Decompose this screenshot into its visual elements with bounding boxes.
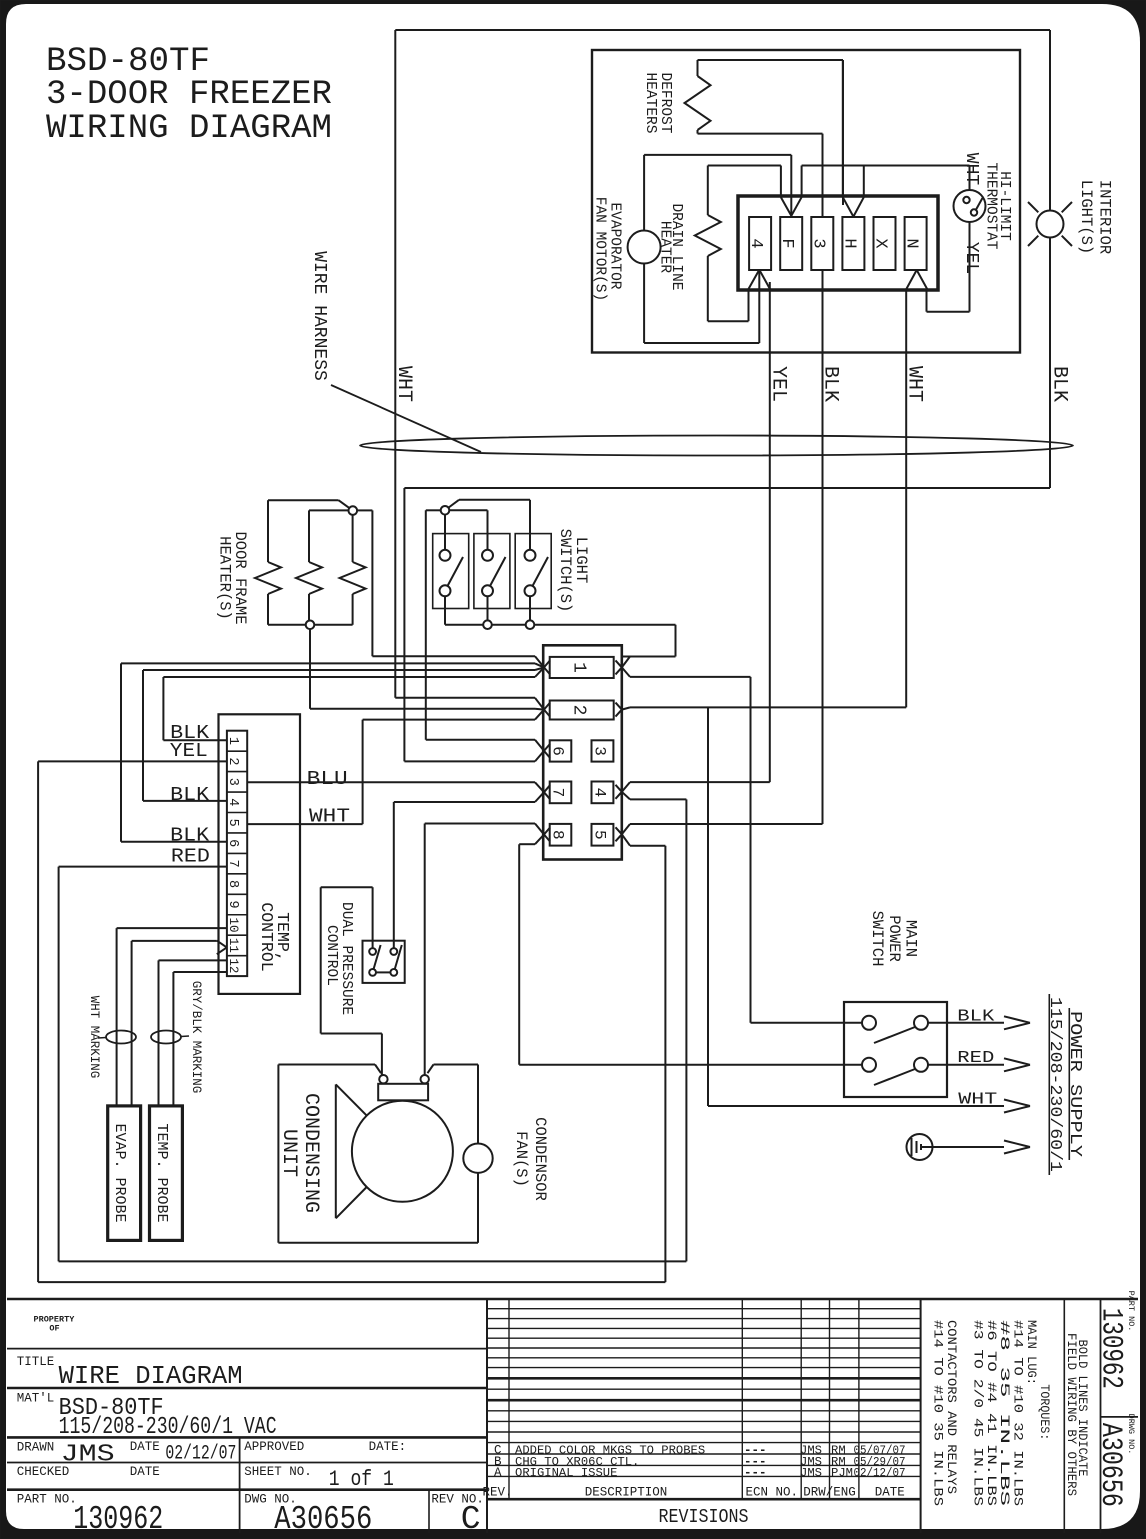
svg-text:5: 5 [591, 830, 609, 840]
svg-text:WIRING DIAGRAM: WIRING DIAGRAM [46, 110, 332, 148]
svg-text:WIRE DIAGRAM: WIRE DIAGRAM [59, 1361, 243, 1391]
svg-text:FAN MOTOR(S): FAN MOTOR(S) [592, 197, 608, 301]
svg-text:115/208-230/60/1 VAC: 115/208-230/60/1 VAC [59, 1414, 277, 1441]
svg-text:F: F [777, 238, 796, 248]
svg-text:WHT: WHT [958, 1090, 997, 1109]
svg-text:WIRE HARNESS: WIRE HARNESS [309, 251, 329, 381]
svg-text:THERMOSTAT: THERMOSTAT [983, 162, 999, 249]
svg-text:C: C [461, 1501, 481, 1538]
svg-text:7: 7 [549, 788, 567, 798]
svg-text:#14 TO #10 35 IN.LBS: #14 TO #10 35 IN.LBS [931, 1320, 946, 1506]
svg-text:APPROVED: APPROVED [244, 1440, 304, 1454]
svg-text:MAIN: MAIN [901, 920, 919, 957]
svg-text:DATE: DATE [875, 1486, 905, 1500]
svg-text:CONDENSING: CONDENSING [299, 1093, 322, 1213]
svg-text:YEL: YEL [767, 366, 790, 402]
svg-text:4: 4 [591, 788, 609, 798]
svg-text:130962: 130962 [1093, 1308, 1127, 1389]
svg-text:FIELD WIRING BY OTHERS: FIELD WIRING BY OTHERS [1064, 1333, 1079, 1496]
svg-text:SWITCH: SWITCH [868, 911, 886, 967]
svg-text:EVAP. PROBE: EVAP. PROBE [111, 1123, 128, 1222]
svg-text:WHT: WHT [961, 153, 981, 186]
svg-text:WHT: WHT [309, 806, 350, 828]
svg-text:4: 4 [746, 238, 765, 248]
svg-text:POWER: POWER [885, 915, 903, 962]
svg-text:BLK: BLK [819, 366, 842, 402]
svg-text:DATE: DATE [130, 1465, 160, 1479]
svg-text:YEL: YEL [170, 740, 208, 762]
svg-text:A30656: A30656 [1093, 1423, 1127, 1507]
svg-text:A: A [494, 1466, 502, 1480]
svg-text:RED: RED [171, 846, 210, 868]
svg-text:8: 8 [225, 880, 240, 888]
svg-text:CONDENSOR: CONDENSOR [531, 1117, 549, 1201]
svg-text:MAT'L: MAT'L [17, 1392, 55, 1406]
svg-text:EVAPORATOR: EVAPORATOR [607, 202, 623, 289]
svg-text:DESCRIPTION: DESCRIPTION [585, 1486, 668, 1500]
svg-text:6: 6 [225, 839, 240, 847]
svg-text:SHEET NO.: SHEET NO. [244, 1465, 312, 1479]
svg-text:TORQUES:: TORQUES: [1037, 1384, 1052, 1440]
svg-text:ECN NO.: ECN NO. [745, 1486, 798, 1500]
svg-text:3: 3 [808, 238, 827, 248]
svg-text:DATE:: DATE: [369, 1440, 407, 1454]
svg-text:4: 4 [225, 798, 240, 806]
svg-text:YEL: YEL [961, 242, 981, 274]
svg-text:HEATERS: HEATERS [642, 73, 658, 134]
svg-text:H: H [839, 238, 858, 248]
svg-text:WHT MARKING: WHT MARKING [87, 996, 101, 1079]
svg-text:WHT: WHT [903, 366, 926, 402]
svg-text:7: 7 [225, 860, 240, 868]
svg-text:12: 12 [226, 958, 240, 973]
svg-text:PART NO.: PART NO. [17, 1492, 77, 1506]
svg-text:3: 3 [225, 778, 240, 786]
svg-text:REVISIONS: REVISIONS [659, 1506, 749, 1528]
svg-text:DUAL PRESSURE: DUAL PRESSURE [338, 902, 354, 1015]
svg-text:BLK: BLK [1048, 366, 1071, 402]
svg-text:8: 8 [549, 830, 567, 840]
svg-text:HEATER(S): HEATER(S) [216, 536, 234, 620]
svg-text:5: 5 [225, 819, 240, 827]
svg-text:BLK: BLK [957, 1007, 995, 1026]
svg-text:BLK: BLK [170, 784, 210, 806]
svg-text:HEATER: HEATER [657, 221, 673, 274]
svg-text:3: 3 [591, 746, 609, 756]
svg-text:1: 1 [225, 737, 240, 745]
svg-text:TEMP. PROBE: TEMP. PROBE [153, 1123, 170, 1222]
svg-text:2: 2 [569, 705, 589, 716]
svg-text:OF: OF [49, 1324, 59, 1334]
svg-text:#3 TO 2/0 45 IN.LBS: #3 TO 2/0 45 IN.LBS [971, 1320, 986, 1506]
svg-text:TITLE: TITLE [17, 1355, 55, 1369]
svg-text:FAN(S): FAN(S) [512, 1131, 530, 1187]
svg-text:CHECKED: CHECKED [17, 1465, 70, 1479]
svg-text:3-DOOR FREEZER: 3-DOOR FREEZER [46, 76, 332, 114]
svg-text:DATE: DATE [130, 1440, 160, 1454]
svg-text:CONTROL: CONTROL [257, 902, 276, 971]
svg-text:BLU: BLU [307, 768, 348, 790]
svg-text:1 of 1: 1 of 1 [329, 1467, 394, 1492]
svg-text:CONTROL: CONTROL [323, 925, 339, 986]
svg-text:6: 6 [549, 746, 567, 756]
svg-text:LIGHT(S): LIGHT(S) [1077, 180, 1095, 254]
svg-text:10: 10 [226, 917, 240, 932]
svg-text:UNIT: UNIT [277, 1129, 300, 1177]
svg-text:RED: RED [957, 1049, 994, 1068]
svg-text:02/12/07: 02/12/07 [854, 1466, 906, 1480]
svg-text:9: 9 [225, 900, 240, 908]
svg-text:DRAWN: DRAWN [17, 1441, 55, 1455]
svg-text:A30656: A30656 [274, 1501, 372, 1538]
svg-text:11: 11 [226, 938, 240, 953]
svg-text:2: 2 [225, 757, 240, 765]
svg-text:REV.: REV. [482, 1486, 512, 1500]
svg-text:BLK: BLK [170, 824, 210, 846]
svg-text:1: 1 [569, 662, 589, 673]
svg-text:X: X [871, 238, 890, 248]
svg-text:ORIGINAL ISSUE: ORIGINAL ISSUE [515, 1466, 617, 1480]
svg-text:---: --- [744, 1466, 767, 1480]
svg-text:DEFROST: DEFROST [657, 73, 673, 134]
svg-text:JMS: JMS [800, 1466, 822, 1480]
svg-text:INTERIOR: INTERIOR [1096, 180, 1114, 254]
svg-text:130962: 130962 [73, 1501, 163, 1538]
svg-text:GRY/BLK MARKING: GRY/BLK MARKING [189, 981, 203, 1094]
svg-text:PJM: PJM [831, 1466, 853, 1480]
svg-text:DRW/ENG: DRW/ENG [803, 1486, 856, 1500]
svg-text:N: N [902, 238, 921, 248]
svg-text:SWITCH(S): SWITCH(S) [556, 529, 574, 613]
svg-text:02/12/07: 02/12/07 [165, 1442, 236, 1465]
